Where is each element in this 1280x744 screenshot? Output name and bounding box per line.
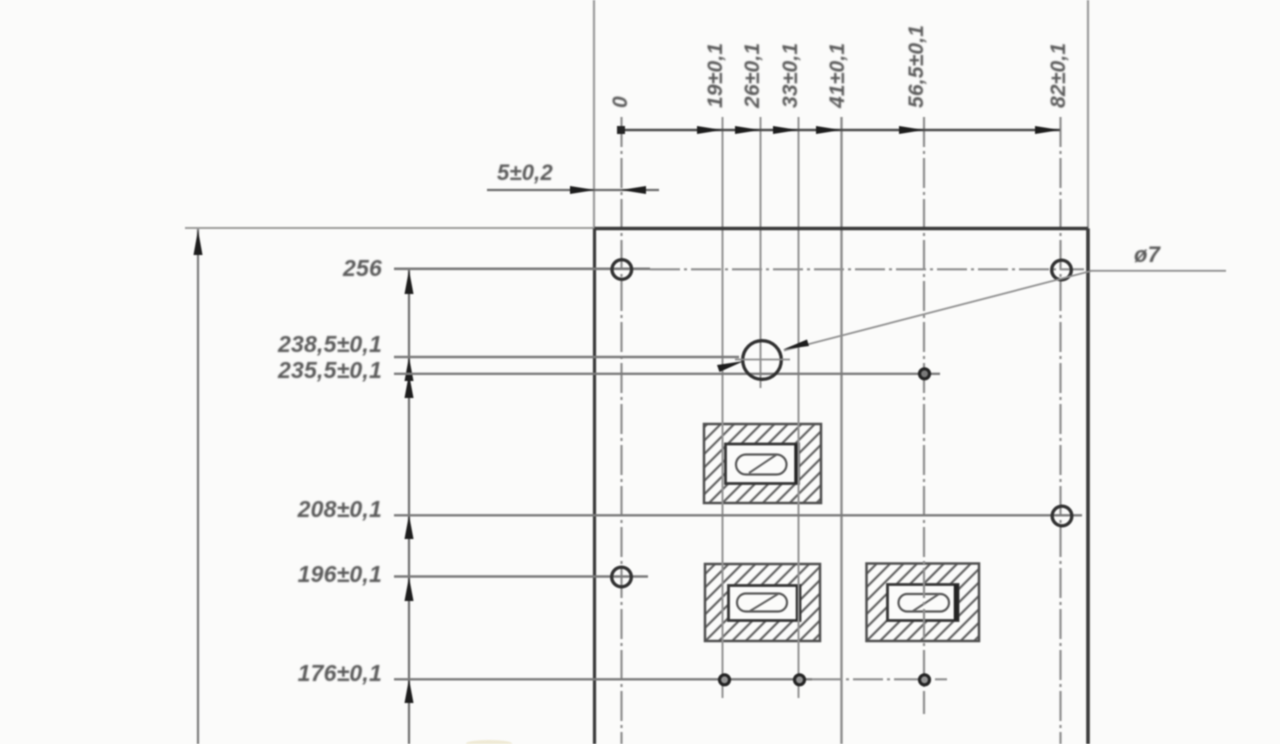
256 dimension line + top centerline — [342, 255, 1084, 281]
centerline 56.5 — [923, 117, 925, 714]
slot bottom-right: hatched boss — [867, 564, 980, 642]
svg-text:235,5±0,1: 235,5±0,1 — [277, 357, 382, 383]
svg-text:26±0,1: 26±0,1 — [741, 43, 764, 109]
svg-text:208±0,1: 208±0,1 — [297, 496, 382, 522]
svg-text:256: 256 — [342, 255, 382, 281]
196 dimension line — [298, 561, 648, 587]
svg-text:196±0,1: 196±0,1 — [298, 561, 382, 587]
svg-text:5±0,2: 5±0,2 — [497, 160, 553, 185]
hole top-left — [612, 260, 632, 280]
centerline 82 — [1059, 117, 1061, 744]
leader line to ø7 label — [783, 271, 1226, 351]
extension line x=621 / vertical centerline 0 — [620, 117, 622, 744]
plate outline — [595, 229, 1089, 744]
extension line 41 — [840, 117, 842, 744]
big hole ø7 — [735, 341, 790, 380]
hole mid-left — [612, 567, 632, 587]
svg-text:56,5±0,1: 56,5±0,1 — [905, 25, 928, 108]
small hole (799,680) — [795, 675, 805, 685]
176 dimension line — [298, 660, 947, 686]
top edge extension to the left — [185, 227, 594, 229]
hole right 208 — [1052, 506, 1072, 526]
svg-text:0: 0 — [609, 96, 632, 108]
208 dimension line — [297, 496, 1082, 522]
5±0,2 dimension — [487, 160, 659, 194]
svg-text:33±0,1: 33±0,1 — [779, 43, 802, 108]
right edge extension line (above plate) — [1087, 0, 1089, 229]
small hole (925,680) — [920, 675, 930, 685]
svg-text:41±0,1: 41±0,1 — [826, 43, 849, 109]
svg-text:ø7: ø7 — [1134, 242, 1162, 267]
extension line 26 — [760, 117, 762, 388]
left edge extension line (above plate) — [593, 0, 595, 229]
top dimension line — [617, 126, 1060, 134]
238,5 dimension line — [277, 331, 744, 372]
slot bottom-left: hatched boss — [705, 564, 820, 641]
svg-text:82±0,1: 82±0,1 — [1047, 43, 1070, 108]
svg-text:19±0,1: 19±0,1 — [704, 43, 727, 108]
235,5 dimension line — [277, 357, 940, 383]
hole top-right — [1052, 260, 1072, 280]
slot top: hatched boss — [704, 424, 821, 503]
small hole (925,374) — [920, 369, 930, 379]
overall height dimension line (left) — [194, 229, 203, 744]
small hole (724,680) — [720, 675, 730, 685]
svg-text:176±0,1: 176±0,1 — [298, 660, 382, 686]
extension line 33 — [798, 117, 800, 698]
extension line 19 — [722, 117, 724, 698]
svg-text:238,5±0,1: 238,5±0,1 — [277, 331, 382, 357]
faint stamp smear bottom — [466, 740, 512, 744]
vertical dimension chain line x=409 — [405, 269, 414, 744]
